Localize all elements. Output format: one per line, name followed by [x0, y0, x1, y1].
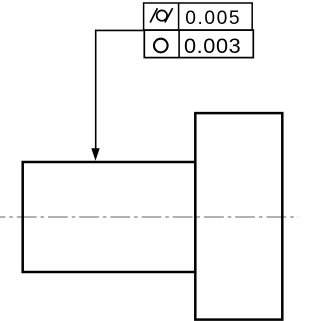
feature control frame: circularity row box — [144, 30, 253, 57]
leader line horizontal segment — [95, 29, 144, 31]
large cylinder (right rectangle) — [195, 113, 282, 320]
feature control frame: cylindricity row box — [144, 3, 253, 30]
svg-text:0.003: 0.003 — [184, 33, 241, 58]
svg-text:0.005: 0.005 — [185, 8, 241, 29]
circularity symbol — [154, 39, 168, 53]
centerline (shaft axis) — [0, 216, 298, 218]
feature control frame: bottom row cell divider — [178, 30, 180, 57]
leader line vertical segment — [95, 30, 97, 150]
feature control frame: top row cell divider — [178, 3, 180, 30]
leader arrowhead — [91, 148, 99, 161]
small cylinder (left rectangle) — [23, 162, 196, 272]
cylindricity symbol — [150, 8, 172, 22]
